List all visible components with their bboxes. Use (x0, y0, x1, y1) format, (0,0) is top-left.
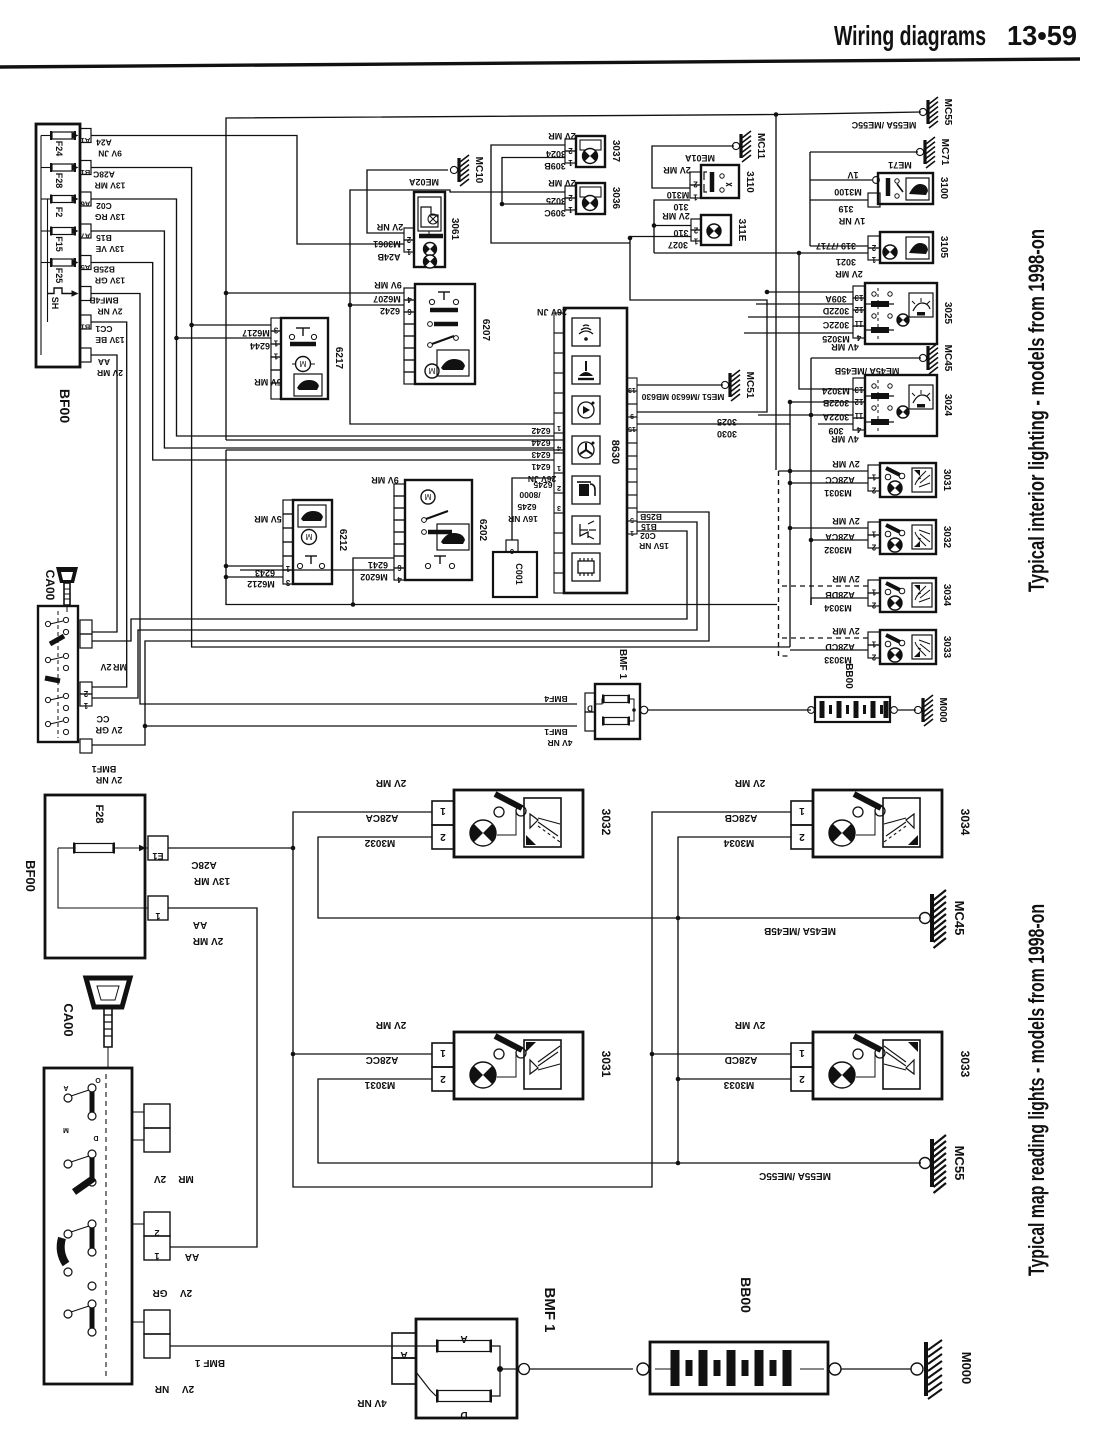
connector BMF1 bottom (416, 1319, 517, 1418)
svg-text:1: 1 (693, 193, 698, 202)
svg-text:6: 6 (397, 563, 402, 572)
svg-text:/8000: /8000 (519, 490, 541, 500)
courtesy lamp 3036 (576, 183, 605, 214)
ground MC45 top (811, 357, 921, 359)
svg-text:F28: F28 (93, 805, 105, 824)
svg-text:M6217: M6217 (242, 328, 270, 338)
lamp assembly 3025 (865, 283, 937, 344)
wire B15 (91, 231, 554, 448)
connector BMF1 top (595, 684, 640, 739)
svg-text:1V: 1V (847, 170, 858, 180)
svg-text:13: 13 (628, 386, 636, 393)
battery BB00 top (815, 697, 890, 722)
svg-text:CC: CC (96, 714, 109, 724)
svg-text:311E: 311E (736, 219, 747, 242)
svg-text:A28C: A28C (191, 859, 217, 870)
svg-text:2: 2 (871, 243, 876, 252)
svg-text:15V NR: 15V NR (639, 541, 669, 551)
door module 6217 (281, 318, 328, 399)
svg-text:A28CD: A28CD (725, 1054, 758, 1065)
svg-text:2V: 2V (154, 1173, 167, 1184)
svg-text:6245: 6245 (517, 502, 536, 512)
svg-text:A: A (400, 1349, 407, 1360)
svg-text:ME45A /ME45B: ME45A /ME45B (764, 925, 836, 936)
fuse F2 (52, 196, 74, 203)
map reading lamp 3033 (813, 1032, 942, 1099)
key symbol CA00 bottom (86, 978, 130, 1007)
fusebox internal bus (40, 136, 42, 356)
svg-text:MC51: MC51 (744, 372, 755, 399)
svg-text:F24: F24 (54, 141, 64, 157)
3024 pin wires (790, 401, 853, 403)
8630 icon 1 (572, 318, 600, 346)
connector C001 (493, 552, 537, 597)
pin A5 / wire B25B (80, 256, 91, 270)
ignition switch box bottom (44, 1068, 132, 1384)
wire to battery bottom (530, 1368, 633, 1370)
svg-text:12: 12 (854, 397, 863, 406)
fusebox BF00 (36, 124, 80, 367)
door module 6212 (293, 500, 332, 584)
svg-text:M3034: M3034 (723, 837, 754, 848)
svg-text:6: 6 (510, 547, 514, 556)
wire C02 (91, 199, 554, 436)
svg-text:11: 11 (854, 411, 863, 420)
svg-text:A24: A24 (96, 138, 112, 148)
central control unit 8630 (564, 308, 627, 593)
svg-text:2V MR: 2V MR (662, 211, 690, 221)
svg-text:6217: 6217 (333, 347, 344, 370)
svg-text:3021: 3021 (836, 257, 856, 267)
8630 icon 3 (572, 396, 600, 424)
svg-text:1: 1 (871, 255, 876, 264)
svg-text:2V MR: 2V MR (548, 178, 576, 188)
svg-text:3034: 3034 (958, 809, 972, 836)
3033 pins (791, 1043, 813, 1067)
svg-text:3033: 3033 (941, 636, 952, 659)
svg-text:A24B: A24B (377, 252, 401, 262)
svg-text:2V MR: 2V MR (734, 1019, 765, 1030)
svg-text:F15: F15 (54, 236, 64, 252)
svg-text:ME45A /ME45B: ME45A /ME45B (834, 366, 899, 376)
ground MC71 (916, 148, 923, 155)
svg-text:3034: 3034 (941, 584, 952, 607)
branch to 3024 (799, 253, 853, 389)
svg-text:3032: 3032 (941, 526, 952, 549)
3025 pin wires (767, 291, 853, 293)
6217 pin wires (192, 324, 271, 326)
svg-text:4: 4 (856, 333, 861, 342)
svg-text:M: M (63, 1126, 69, 1133)
svg-text:B1: B1 (81, 323, 91, 332)
svg-text:26V JN: 26V JN (537, 307, 567, 317)
svg-text:A28C: A28C (93, 170, 115, 180)
svg-text:1: 1 (557, 424, 561, 433)
door lock unit 6207 (415, 284, 475, 384)
wire CC1 (91, 322, 127, 687)
courtesy lamp 3037 (576, 136, 605, 167)
wires from ignition switch (92, 531, 687, 641)
pin B1 / wire A28C (80, 161, 91, 175)
svg-text:A: A (460, 1333, 467, 1344)
CA00 bottom pins (144, 1104, 170, 1128)
svg-text:2V MR: 2V MR (192, 935, 223, 946)
svg-text:3033: 3033 (958, 1051, 972, 1078)
svg-text:2: 2 (799, 831, 805, 842)
ignition switch box (top) (38, 606, 78, 742)
svg-text:1: 1 (568, 158, 573, 167)
svg-text:6244: 6244 (531, 438, 550, 448)
svg-text:1: 1 (557, 464, 561, 473)
switch unit 3100 (878, 173, 933, 204)
wire A24 9V JN (91, 136, 404, 245)
wire to ground M000 (841, 1368, 911, 1370)
lamp wires (779, 470, 869, 472)
svg-text:9V MR: 9V MR (374, 280, 402, 290)
map reading lamp 3032 (454, 790, 583, 857)
svg-text:1: 1 (871, 473, 876, 482)
wire A28C bottom (168, 847, 293, 849)
svg-text:1: 1 (871, 530, 876, 539)
svg-text:M310: M310 (667, 190, 690, 200)
svg-text:3022C: 3022C (822, 320, 849, 330)
svg-text:2V: 2V (180, 1287, 193, 1298)
svg-text:13V MR: 13V MR (95, 181, 126, 191)
svg-text:2: 2 (693, 226, 698, 235)
svg-text:4V NR: 4V NR (547, 738, 572, 748)
wire 3021/3025 (654, 252, 868, 254)
reading lamp 3033 (880, 630, 936, 664)
8630 icon 2 (572, 356, 600, 384)
svg-text:3061: 3061 (449, 218, 460, 241)
svg-text:1: 1 (568, 205, 573, 214)
svg-text:1: 1 (693, 237, 698, 246)
svg-text:3037: 3037 (610, 140, 621, 163)
svg-text:M3032: M3032 (364, 837, 395, 848)
svg-text:2: 2 (557, 484, 561, 493)
svg-text:2V: 2V (182, 1383, 195, 1394)
svg-text:MC11: MC11 (755, 133, 766, 160)
svg-text:2V MR: 2V MR (548, 131, 576, 141)
door lock unit 6202 (405, 480, 472, 580)
8630 icon 6 (572, 516, 600, 544)
pin E1 (148, 836, 168, 860)
svg-text:6207: 6207 (480, 319, 491, 342)
svg-text:MR: MR (113, 662, 127, 672)
svg-text:6244: 6244 (250, 341, 270, 351)
svg-text:GR: GR (152, 1287, 168, 1298)
svg-text:B15: B15 (96, 233, 112, 243)
svg-text:3027: 3027 (668, 240, 688, 250)
svg-text:3025: 3025 (717, 417, 737, 427)
reading lamp 3034 (880, 578, 936, 612)
svg-text:5V MR: 5V MR (254, 377, 282, 387)
wire loop lower (226, 450, 777, 605)
svg-text:M6202: M6202 (360, 572, 388, 582)
svg-text:BMF4B: BMF4B (89, 296, 118, 306)
bus vertical right (775, 115, 777, 471)
svg-text:2: 2 (83, 689, 88, 698)
bottom diagram wiring (293, 812, 791, 1187)
svg-text:319 /7717: 319 /7717 (816, 241, 856, 251)
dashed bus (779, 471, 791, 656)
svg-text:9: 9 (630, 412, 634, 419)
wire AA (91, 355, 117, 632)
8630 right pins (627, 378, 637, 391)
svg-text:O: O (95, 1076, 101, 1083)
svg-text:AA: AA (193, 919, 207, 930)
svg-text:13V GR: 13V GR (95, 276, 125, 286)
svg-text:B15: B15 (641, 522, 657, 532)
svg-text:BB00: BB00 (738, 1277, 754, 1313)
svg-text:CA00: CA00 (43, 570, 57, 601)
svg-text:M3061: M3061 (373, 239, 401, 249)
svg-text:1: 1 (799, 805, 805, 816)
svg-text:1: 1 (440, 805, 446, 816)
svg-text:Typical interior lighting - mo: Typical interior lighting - models from … (1024, 229, 1049, 592)
svg-text:13: 13 (854, 385, 863, 394)
svg-text:M3034: M3034 (824, 603, 852, 613)
svg-text:C02: C02 (96, 201, 112, 211)
svg-text:E1: E1 (152, 851, 163, 861)
pin blank / wire BMF4B (80, 287, 91, 301)
fuse F24 (52, 132, 74, 139)
svg-text:2: 2 (440, 831, 446, 842)
svg-text:2: 2 (693, 180, 698, 189)
svg-text:AA: AA (98, 357, 110, 367)
3031 pins (432, 1043, 454, 1067)
svg-text:CC1: CC1 (95, 324, 112, 334)
svg-text:ME71: ME71 (888, 160, 912, 170)
wire to ground MC55 (776, 112, 921, 115)
svg-text:Wiring diagrams: Wiring diagrams (834, 20, 986, 51)
svg-text:1: 1 (154, 1251, 159, 1261)
switch unit 3105 (880, 232, 933, 263)
svg-text:15: 15 (628, 425, 636, 432)
svg-text:8630: 8630 (609, 440, 621, 464)
ground MC11 (732, 142, 739, 149)
svg-text:2V MR: 2V MR (832, 574, 860, 584)
6202 pin wires (353, 558, 394, 605)
svg-text:A7: A7 (81, 232, 91, 241)
svg-text:6242: 6242 (380, 306, 400, 316)
svg-text:1: 1 (273, 339, 278, 348)
svg-text:M6207: M6207 (373, 294, 401, 304)
svg-text:2V MR: 2V MR (832, 626, 860, 636)
svg-text:B25B: B25B (640, 512, 662, 522)
wire BMF4B (91, 294, 577, 705)
svg-text:1: 1 (155, 911, 160, 921)
svg-text:1: 1 (273, 352, 278, 361)
svg-text:BMF 1: BMF 1 (541, 1288, 558, 1333)
svg-text:A5: A5 (81, 263, 91, 272)
svg-text:M3031: M3031 (824, 488, 852, 498)
8630 icon 7 (572, 553, 600, 581)
switch contacts bottom (64, 1094, 72, 1102)
svg-text:2: 2 (871, 543, 876, 552)
buzzer 311E (701, 215, 731, 245)
pin A6 / wire C02 (80, 192, 91, 206)
3034 pins (791, 801, 813, 825)
svg-text:A6: A6 (81, 200, 91, 209)
wire 3025 net (350, 190, 565, 305)
svg-text:BMF 1: BMF 1 (617, 649, 628, 679)
svg-text:2V NR: 2V NR (376, 222, 403, 232)
svg-text:MC71: MC71 (939, 139, 950, 166)
header rule (0, 59, 1080, 67)
svg-text:Typical map reading lights - m: Typical map reading lights - models from… (1024, 904, 1049, 1276)
pin A1 / wire A24 (80, 129, 91, 143)
wire 6245 to C001 (512, 478, 554, 540)
svg-text:ME55A /ME55C: ME55A /ME55C (759, 1170, 831, 1181)
svg-text:2V MR: 2V MR (832, 459, 860, 469)
svg-text:4: 4 (407, 295, 412, 304)
svg-text:5: 5 (630, 516, 634, 523)
svg-text:13V VE: 13V VE (95, 244, 124, 254)
switch contacts (45, 621, 50, 626)
svg-text:26V JN: 26V JN (528, 474, 556, 484)
svg-text:BMF1: BMF1 (544, 727, 567, 737)
svg-text:3: 3 (273, 326, 278, 335)
8630 icon 5 (572, 476, 600, 504)
svg-text:C02: C02 (640, 531, 656, 541)
wire ME01A to ground MC11 (652, 146, 734, 188)
svg-text:D: D (93, 1134, 98, 1141)
svg-text:3110: 3110 (744, 171, 755, 193)
svg-text:2V: 2V (100, 662, 111, 672)
svg-text:M3024: M3024 (822, 386, 850, 396)
svg-text:4: 4 (397, 575, 402, 584)
svg-text:3032: 3032 (599, 809, 613, 836)
3061 pins (404, 228, 414, 240)
svg-text:CA00: CA00 (61, 1003, 76, 1036)
svg-text:MR: MR (177, 1173, 193, 1184)
wire BMF1 to battery (648, 709, 811, 711)
wire ME71 to ground MC71 (810, 151, 918, 153)
svg-text:12: 12 (854, 305, 863, 314)
svg-text:3105: 3105 (938, 236, 949, 259)
svg-text:2V MR: 2V MR (663, 165, 691, 175)
reading lamp 3031 (880, 463, 936, 497)
pin 1 (148, 896, 168, 920)
svg-text:2: 2 (568, 146, 573, 155)
wire B25B (91, 263, 554, 461)
svg-text:D: D (460, 1409, 467, 1420)
svg-text:1: 1 (871, 588, 876, 597)
svg-text:M000: M000 (959, 1352, 974, 1385)
fuse F28 bottom (75, 844, 113, 853)
pin A7 / wire B15 (80, 224, 91, 238)
svg-text:A28CB: A28CB (725, 812, 758, 823)
svg-text:13•59: 13•59 (1007, 20, 1077, 51)
wire M3061 to ground MC10 (367, 170, 448, 233)
fuse F25 (52, 259, 74, 266)
svg-text:2V MR: 2V MR (375, 777, 406, 788)
svg-text:6242: 6242 (531, 426, 550, 436)
svg-text:BMF 1: BMF 1 (195, 1357, 225, 1368)
svg-text:3100: 3100 (938, 177, 949, 200)
ground MC51 (721, 381, 728, 388)
svg-text:NR: NR (154, 1383, 169, 1394)
svg-text:13V RG: 13V RG (95, 212, 126, 222)
fuse F28 (52, 164, 74, 171)
svg-text:ME02A: ME02A (408, 177, 439, 187)
fuse A (438, 1341, 490, 1352)
wire 3024 net (491, 145, 630, 243)
svg-text:1: 1 (871, 640, 876, 649)
CA00 pin cells (80, 620, 92, 634)
wire 309C (502, 203, 565, 205)
svg-text:M3033: M3033 (723, 1079, 754, 1090)
fuse D (438, 1391, 490, 1402)
svg-text:MC10: MC10 (473, 157, 484, 184)
svg-text:MC45: MC45 (952, 901, 967, 936)
pin B1 / wire CC1 (80, 315, 91, 329)
svg-text:2V MR: 2V MR (734, 777, 765, 788)
svg-text:2: 2 (568, 193, 573, 202)
svg-text:309B: 309B (544, 161, 566, 171)
svg-text:BF00: BF00 (23, 860, 38, 892)
svg-text:2V MR: 2V MR (97, 368, 123, 378)
ground M000 (911, 1363, 923, 1375)
svg-text:9V JN: 9V JN (98, 149, 122, 159)
svg-text:2: 2 (871, 601, 876, 610)
svg-text:C001: C001 (514, 563, 524, 585)
svg-text:2: 2 (871, 486, 876, 495)
svg-text:F25: F25 (54, 268, 64, 284)
svg-text:SH: SH (50, 297, 60, 310)
wire 3027 net (630, 237, 767, 413)
svg-text:MC45: MC45 (942, 345, 953, 372)
svg-text:2: 2 (154, 1228, 159, 1238)
svg-text:6241: 6241 (531, 462, 550, 472)
svg-text:A1: A1 (81, 136, 91, 145)
svg-text:2: 2 (871, 653, 876, 662)
svg-text:309A: 309A (825, 294, 847, 304)
svg-text:9V MR: 9V MR (371, 475, 399, 485)
svg-text:1: 1 (406, 247, 411, 256)
svg-text:3036: 3036 (610, 187, 621, 210)
svg-text:B1: B1 (81, 168, 91, 177)
relay 3110 (701, 165, 739, 198)
svg-text:M3032: M3032 (824, 545, 852, 555)
svg-text:AA: AA (185, 1251, 199, 1262)
svg-text:1V NR: 1V NR (838, 216, 865, 226)
svg-text:BF00: BF00 (57, 389, 73, 423)
svg-text:5V MR: 5V MR (254, 514, 282, 524)
svg-text:6243: 6243 (531, 450, 550, 460)
ground MC10 (450, 166, 457, 173)
svg-text:MC55: MC55 (942, 99, 953, 126)
svg-text:A: A (63, 1084, 68, 1091)
svg-text:3031: 3031 (941, 469, 952, 492)
bus vertical 790 (789, 402, 791, 647)
svg-text:2V MR: 2V MR (375, 1019, 406, 1030)
wire A28C to lamps bus (91, 168, 790, 648)
svg-text:4V MR: 4V MR (831, 342, 859, 352)
lamp assembly 3024 (865, 375, 937, 436)
reading lamp 3032 (880, 520, 936, 554)
svg-text:319: 319 (838, 204, 853, 214)
wire BMF1 bottom (170, 1345, 416, 1347)
svg-text:M: M (305, 532, 312, 541)
ground MC55 (919, 108, 926, 115)
svg-text:MC55: MC55 (952, 1146, 967, 1181)
svg-text:F28: F28 (54, 173, 64, 189)
svg-text:F2: F2 (54, 207, 64, 218)
svg-text:4V NR: 4V NR (356, 1397, 386, 1408)
svg-text:310: 310 (673, 202, 688, 212)
